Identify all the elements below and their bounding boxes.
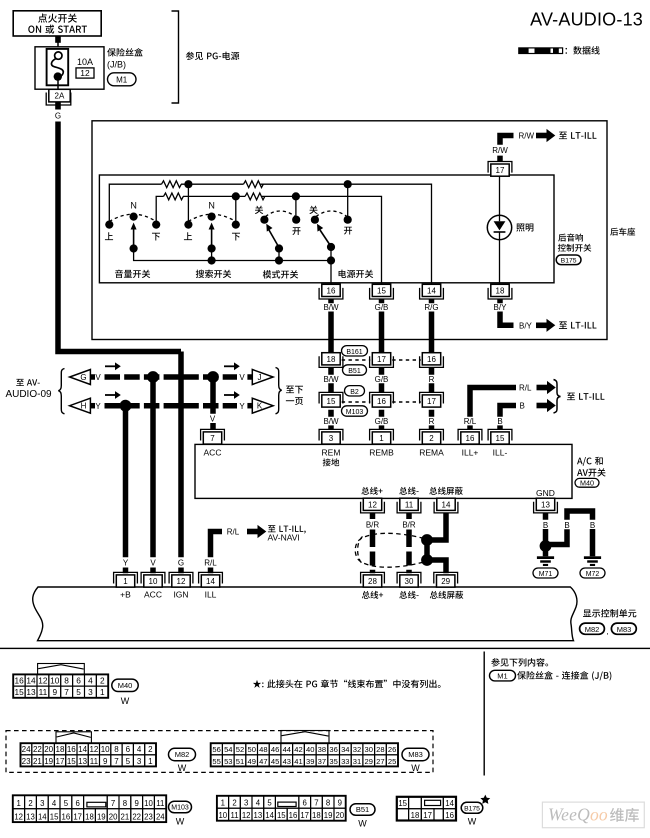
resistor R-row2-b: [245, 193, 265, 200]
svg-text:W: W: [468, 817, 477, 827]
svg-text:15: 15: [50, 813, 59, 822]
svg-text:B: B: [590, 521, 595, 530]
junction Y to +B wire: [120, 400, 132, 412]
svg-text:IGN: IGN: [173, 590, 188, 600]
svg-text:2: 2: [28, 799, 32, 808]
text label: vol up: [105, 232, 113, 240]
svg-text:14: 14: [442, 500, 451, 509]
M40 bottom pin 13 GND: [534, 502, 558, 513]
svg-text:31: 31: [353, 757, 361, 766]
svg-text:1: 1: [123, 577, 128, 586]
svg-text:8: 8: [64, 676, 69, 686]
svg-text:B: B: [564, 521, 569, 530]
svg-text:11: 11: [156, 799, 164, 808]
text label: volume switch: [115, 270, 150, 278]
svg-text:8: 8: [114, 745, 119, 754]
M40 pin 1: [370, 429, 394, 440]
svg-text:R: R: [429, 375, 435, 384]
svg-text:17: 17: [377, 355, 386, 364]
svg-text:N: N: [130, 200, 137, 210]
svg-text:ILL: ILL: [205, 590, 217, 600]
wire B/Y down from pin 18 with corner to arrow: [497, 299, 513, 325]
svg-text:2: 2: [148, 745, 153, 754]
svg-text:29: 29: [441, 577, 450, 586]
M40 pin 2: [420, 429, 444, 440]
svg-text:12: 12: [177, 577, 186, 586]
svg-text:W: W: [411, 763, 420, 773]
svg-text:50: 50: [247, 745, 255, 754]
svg-text:42: 42: [294, 745, 302, 754]
wire R/L branch to LT-ILL AV-NAVI: [208, 532, 222, 574]
M83 table oval: [402, 748, 429, 760]
svg-text:9: 9: [52, 687, 57, 697]
M103 key slot: [87, 802, 106, 807]
svg-text:13: 13: [26, 687, 36, 697]
svg-text:B175: B175: [464, 806, 480, 813]
text label: rear audio line2: [558, 244, 591, 252]
pin 17 of B175 (top): [488, 162, 512, 173]
svg-text:G/B: G/B: [375, 417, 389, 426]
svg-text:17: 17: [56, 757, 65, 766]
text label: REM ground: [323, 458, 340, 466]
M40 table oval: [112, 679, 138, 691]
svg-text:11: 11: [90, 757, 99, 766]
data line row V: stubs: [90, 374, 95, 380]
svg-text:24: 24: [22, 745, 31, 754]
svg-text:10: 10: [50, 676, 60, 686]
M40 bottom pin 11: [397, 502, 421, 513]
svg-text:14: 14: [206, 577, 215, 586]
svg-text:B: B: [520, 401, 525, 410]
svg-text:R/G: R/G: [424, 303, 438, 312]
text label: mode switch: [263, 270, 298, 278]
resistor R-row1-a: [162, 181, 182, 188]
connector oval B161: [342, 346, 368, 356]
volume wiper arrow: [133, 228, 135, 248]
M40 bottom pin 12: [361, 502, 385, 513]
volume wiper travel arc (dashed): [109, 214, 156, 221]
junction V to ACC wire: [147, 371, 159, 383]
svg-text:28: 28: [376, 745, 384, 754]
data line row V (thick dashed): [105, 374, 238, 380]
svg-text:3: 3: [244, 799, 248, 808]
display unit pin 30: [397, 572, 421, 583]
wires row A to row B: [331, 368, 432, 393]
mode wiper travel arc (dashed): [266, 211, 296, 217]
display unit pin 29: [434, 572, 458, 583]
text label: search up: [184, 232, 192, 240]
wire stub below 2A: [55, 102, 61, 110]
svg-text:35: 35: [329, 757, 337, 766]
small arrow above V line right: [224, 362, 240, 370]
M82 connector key: [56, 732, 91, 743]
svg-text:13: 13: [541, 500, 550, 509]
pin 14 of B175: [420, 288, 444, 299]
svg-text:15: 15: [327, 397, 336, 406]
svg-text:ACC: ACC: [204, 448, 222, 458]
brace at AV-AUDIO-09: [58, 369, 64, 414]
svg-text:3: 3: [88, 687, 93, 697]
text label: to next page line2: [286, 397, 303, 405]
inline connector row B: pin 15: [319, 392, 343, 403]
svg-text:AV-NAVI: AV-NAVI: [268, 533, 300, 543]
svg-text:10A: 10A: [77, 57, 93, 67]
text label: to LT-ILL right: [567, 393, 605, 401]
text label: bus shield disp: [430, 591, 463, 599]
svg-text:18: 18: [56, 745, 65, 754]
svg-text:56: 56: [212, 745, 220, 754]
junction row2/search-down: [232, 192, 240, 200]
svg-text:R/L: R/L: [464, 417, 477, 426]
text label: mode off: [255, 206, 263, 214]
svg-text:5: 5: [267, 799, 272, 808]
svg-text:10: 10: [218, 811, 227, 820]
svg-text:4: 4: [88, 676, 93, 686]
M40 oval: [575, 478, 599, 487]
svg-text:B/Y: B/Y: [494, 303, 508, 312]
wire: thin into fuse: [57, 42, 59, 52]
svg-text:V: V: [210, 414, 216, 423]
text label: bus+ disp: [362, 591, 383, 599]
row B pin 17: [420, 392, 444, 403]
svg-text:30: 30: [405, 577, 414, 586]
junction row1/power-on: [344, 180, 352, 188]
resistor R-row1-b: [244, 181, 264, 188]
volume pivot dot: [130, 244, 138, 252]
M40 pin 15: [488, 429, 512, 440]
svg-text:4: 4: [52, 799, 57, 808]
svg-text:16: 16: [327, 286, 336, 295]
text label: bus+ M40: [361, 487, 382, 495]
svg-text:15: 15: [496, 434, 505, 443]
svg-text:3: 3: [40, 799, 44, 808]
svg-text:5: 5: [126, 757, 131, 766]
svg-text:2: 2: [100, 676, 105, 686]
fuse number 12 box: [76, 68, 94, 78]
svg-text:46: 46: [271, 745, 279, 754]
svg-text:H: H: [81, 402, 87, 411]
small arrow above Y line left: [105, 391, 121, 399]
svg-text:53: 53: [224, 757, 232, 766]
pin 18 of B175: [488, 288, 512, 299]
svg-text:14: 14: [38, 813, 47, 822]
wire B from ILL- with corner to arrow: [497, 406, 516, 430]
svg-text:N: N: [208, 200, 215, 210]
svg-text:16: 16: [445, 811, 454, 820]
shield drain wire: [427, 513, 449, 573]
data line row Y: stubs: [90, 403, 95, 409]
svg-text:45: 45: [271, 757, 279, 766]
M1 oval footer: [490, 670, 516, 681]
LED vertical wire pin17 to pin18: [499, 176, 501, 284]
svg-text:10: 10: [149, 577, 158, 586]
svg-text:15: 15: [14, 687, 24, 697]
svg-text:G: G: [80, 373, 86, 382]
svg-text:M83: M83: [408, 750, 423, 759]
svg-text:G/B: G/B: [375, 375, 389, 384]
svg-text:33: 33: [341, 757, 349, 766]
M1 oval: [108, 73, 137, 86]
svg-text:6: 6: [76, 799, 80, 808]
bus row 2 wire: [156, 196, 381, 284]
text label: illumination: [516, 223, 533, 231]
svg-text:M103: M103: [346, 409, 364, 416]
shield end cap arc: [358, 537, 363, 565]
wire B/W pin16 to connector 18: [328, 299, 334, 352]
svg-text:REM: REM: [322, 448, 341, 458]
svg-text:38: 38: [318, 745, 326, 754]
svg-text:,: ,: [606, 627, 608, 636]
connector oval B2: [345, 386, 365, 396]
svg-text:R/L: R/L: [519, 383, 532, 392]
svg-text:WeeQoo: WeeQoo: [548, 805, 608, 825]
display unit pin 28: [361, 572, 385, 583]
svg-text:M40: M40: [118, 681, 133, 690]
search switch contacts: [184, 221, 192, 229]
text label: bus shield M40: [429, 487, 462, 495]
svg-text:37: 37: [318, 757, 326, 766]
row B pin 16: [370, 392, 394, 403]
svg-text:REMA: REMA: [419, 448, 444, 458]
B175 table oval: [461, 802, 483, 813]
svg-text:ILL+: ILL+: [462, 448, 479, 458]
svg-text:6: 6: [126, 745, 131, 754]
fuse box J/B: [35, 47, 104, 89]
svg-text:B/W: B/W: [323, 375, 339, 384]
svg-text:48: 48: [259, 745, 267, 754]
svg-text:W: W: [121, 696, 130, 706]
wire: power ON contact to row1 (crosses row2): [347, 184, 349, 216]
svg-text:B: B: [497, 417, 502, 426]
svg-text:5: 5: [64, 799, 69, 808]
svg-text:16: 16: [67, 745, 76, 754]
svg-text:B/Y: B/Y: [519, 321, 533, 330]
wire: mode ON contact to row2: [295, 196, 297, 216]
watermark box: [542, 802, 644, 828]
ignition switch box: [13, 11, 101, 36]
wire V junction down to ACC: [150, 377, 156, 573]
text label: to LT-ILL AV-NAVI: [268, 525, 306, 533]
connector table M83: [211, 743, 398, 766]
svg-text:W: W: [178, 763, 187, 773]
svg-text:16: 16: [62, 813, 71, 822]
svg-text:2: 2: [429, 434, 434, 443]
svg-text:26: 26: [388, 745, 396, 754]
text label: rear seat: [610, 228, 635, 236]
svg-text:4: 4: [256, 799, 261, 808]
svg-text:G: G: [178, 559, 184, 568]
svg-text:34: 34: [341, 745, 349, 754]
svg-text:18: 18: [312, 811, 321, 820]
wire V junction down to M40 pin 7: [210, 377, 216, 429]
svg-text:16: 16: [289, 811, 298, 820]
svg-text:1: 1: [221, 799, 225, 808]
svg-text:R/L: R/L: [227, 528, 240, 537]
svg-text:51: 51: [236, 757, 244, 766]
svg-text:52: 52: [236, 745, 244, 754]
rear seat outer box: [92, 121, 607, 340]
svg-text:13: 13: [26, 813, 35, 822]
mating dashes row A-B columns: [392, 359, 421, 361]
connector arrow J (to next page): [252, 370, 273, 385]
svg-text:19: 19: [324, 811, 333, 820]
svg-text:12: 12: [242, 811, 251, 820]
row A pin 17: [370, 356, 394, 367]
text label: see PG-power: [186, 52, 240, 60]
svg-text:40: 40: [306, 745, 314, 754]
wire bridge to M72 ground: [546, 508, 596, 556]
connector table B175: [397, 797, 456, 821]
svg-text:B161: B161: [346, 349, 362, 356]
svg-text:17: 17: [300, 811, 309, 820]
svg-text:16: 16: [427, 355, 436, 364]
connector 2A: [46, 93, 71, 106]
power pivot dots: [327, 243, 335, 251]
svg-text:22: 22: [132, 813, 141, 822]
svg-text:7: 7: [111, 799, 115, 808]
connector table M103: [13, 795, 166, 822]
inline connector row A: pin 18: [319, 356, 343, 367]
text label: ignition switch title: [38, 14, 77, 23]
svg-text:18: 18: [85, 813, 94, 822]
svg-text:11: 11: [230, 811, 238, 820]
svg-text:12: 12: [89, 745, 98, 754]
svg-text:21: 21: [121, 813, 130, 822]
display unit pin 14: [199, 572, 223, 583]
wire R/L from ILL+ with corner to arrow: [467, 388, 516, 430]
M82 M83 unit ovals: [580, 623, 605, 634]
text label: display control unit: [583, 609, 636, 617]
bus wire + (banded): [370, 513, 376, 573]
LED illumination lamp: [487, 215, 511, 239]
svg-text:23: 23: [22, 757, 31, 766]
svg-text:8: 8: [326, 799, 330, 808]
svg-text:14: 14: [26, 676, 36, 686]
svg-text:V: V: [239, 373, 245, 382]
svg-text:2A: 2A: [55, 92, 65, 101]
footer vertical divider: [484, 652, 485, 776]
wires row B to unit pins: [331, 410, 432, 430]
svg-text:6: 6: [303, 799, 307, 808]
common bus wire to pin 16: [134, 247, 331, 284]
svg-text:V: V: [150, 559, 156, 568]
mode wiper arrow (diagonal): [269, 230, 279, 248]
text label: to next page line1: [286, 386, 303, 394]
svg-text:11: 11: [39, 687, 48, 697]
ground junction dot: [540, 540, 552, 552]
connector table B51: [217, 796, 346, 821]
M103 table oval: [169, 801, 192, 813]
A/C and AV switch unit box M40: [195, 444, 572, 498]
svg-text:55: 55: [212, 757, 220, 766]
svg-text:Y: Y: [239, 402, 245, 411]
junction V to pin7 wire: [207, 371, 219, 383]
svg-text:18: 18: [496, 286, 505, 295]
M82 table oval: [169, 748, 196, 760]
svg-text:54: 54: [224, 745, 232, 754]
power switch contacts: [311, 216, 319, 224]
svg-text:4: 4: [137, 745, 142, 754]
svg-text:28: 28: [368, 577, 377, 586]
search wiper arrow: [211, 228, 213, 248]
text label: watermark weiku: [610, 808, 639, 822]
wire: search up contact to row1: [187, 184, 189, 221]
svg-text:M72: M72: [586, 571, 600, 578]
svg-text:R: R: [429, 417, 435, 426]
svg-text:7: 7: [210, 434, 215, 443]
text label: star note: [253, 680, 441, 689]
wire: ignition to fuse (thick stub): [55, 36, 61, 43]
svg-text:32: 32: [353, 745, 361, 754]
svg-text:G: G: [55, 111, 61, 120]
svg-text:R/W: R/W: [519, 131, 535, 140]
text label: power off: [309, 206, 317, 214]
svg-text:M82: M82: [175, 750, 190, 759]
svg-text:16: 16: [377, 397, 386, 406]
display unit pin 10: [141, 572, 165, 583]
svg-text:10: 10: [144, 799, 153, 808]
svg-text:15: 15: [398, 799, 407, 808]
wire R/G pin14 to connector 16: [429, 299, 435, 352]
power wiper travel arc (dashed): [316, 211, 347, 217]
pin 16 of B175 (bottom): [319, 288, 343, 299]
svg-text:19: 19: [44, 757, 53, 766]
svg-text:M1: M1: [497, 672, 507, 681]
M83 connector key: [281, 731, 329, 744]
text label: fuse junction box note: [517, 671, 611, 680]
svg-text:13: 13: [78, 757, 87, 766]
connector table M82: [21, 743, 157, 766]
svg-text:16: 16: [14, 676, 24, 686]
svg-text:ILL-: ILL-: [493, 448, 508, 458]
wire G/B pin15 to connector 17: [379, 299, 385, 352]
pin 15 of B175: [370, 288, 394, 299]
text label: see following: [491, 658, 548, 666]
search pivot dots: [208, 244, 216, 252]
svg-text:1: 1: [100, 687, 105, 697]
volume switch contacts: [105, 221, 113, 229]
rear audio control switch unit box B175: [99, 175, 554, 283]
svg-text:19: 19: [97, 813, 106, 822]
svg-text:14: 14: [427, 286, 436, 295]
small arrow above Y line right: [224, 391, 240, 399]
power wiper arrow (diagonal): [320, 230, 331, 247]
svg-text:Y: Y: [95, 402, 101, 411]
svg-text:12: 12: [80, 68, 90, 78]
B51 key slot: [278, 802, 296, 806]
svg-text:10: 10: [101, 745, 110, 754]
svg-text:21: 21: [33, 757, 42, 766]
ground symbol M72: [584, 556, 601, 566]
wire R/W top branch with corner: [497, 136, 513, 163]
M72 oval: [580, 568, 605, 578]
svg-text:9: 9: [103, 757, 108, 766]
svg-text:8: 8: [123, 799, 127, 808]
svg-text:1: 1: [148, 757, 153, 766]
bus wire - (banded): [406, 513, 412, 573]
text label: bus- disp: [399, 591, 418, 599]
svg-text:18: 18: [411, 811, 420, 820]
resistor R-row2-a: [164, 193, 184, 200]
svg-text:B/W: B/W: [323, 303, 339, 312]
svg-text:23: 23: [144, 813, 153, 822]
svg-text:17: 17: [427, 397, 436, 406]
svg-text:14: 14: [265, 811, 274, 820]
svg-text:9: 9: [135, 799, 139, 808]
svg-text:15: 15: [67, 757, 76, 766]
svg-text:V: V: [95, 373, 101, 382]
bracket: see PG-power: [172, 11, 179, 103]
